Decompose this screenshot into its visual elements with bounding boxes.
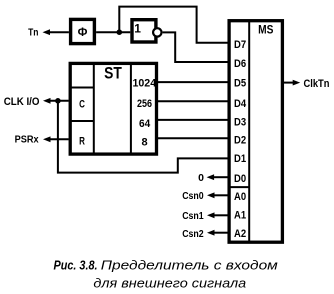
svg-text:ST: ST (104, 64, 122, 82)
wire ST 8 to MS D2 (158, 137, 228, 139)
wire ST 1024 to MS D5 (158, 81, 228, 83)
multiplexer MS box (229, 21, 282, 243)
svg-text:D6: D6 (234, 58, 246, 70)
svg-text:ClkTn: ClkTn (304, 78, 330, 90)
wire Tn to block F (49, 31, 69, 33)
svg-text:D3: D3 (234, 116, 246, 128)
svg-text:Рис. 3.8.: Рис. 3.8. (54, 257, 98, 272)
svg-text:64: 64 (139, 118, 151, 130)
svg-text:1: 1 (134, 21, 141, 35)
wire junction A to MS D7 (119, 7, 228, 43)
svg-text:8: 8 (142, 137, 148, 149)
arrow to 0 (207, 174, 215, 180)
svg-text:для внешнего сигнала: для внешнего сигнала (93, 276, 246, 291)
svg-text:256: 256 (137, 98, 152, 110)
svg-text:A1: A1 (234, 210, 246, 222)
svg-text:PSRx: PSRx (15, 134, 39, 146)
svg-text:C: C (79, 99, 85, 111)
wire F output to gate 1 (96, 31, 130, 33)
wire 0 to MS D0 (213, 176, 228, 178)
wire CLK I/O to ST pin C (50, 100, 69, 102)
svg-text:Ф: Ф (78, 27, 88, 39)
wire inverter output to MS D6 (163, 32, 228, 62)
arrow to ClkTn (293, 80, 301, 86)
MS separator D0/A0 (229, 186, 249, 188)
ST cell line between C and R (70, 120, 94, 122)
svg-text:MS: MS (258, 23, 273, 37)
svg-text:Csn0: Csn0 (182, 191, 204, 202)
arrow to Csn0 (207, 192, 215, 198)
wire ST 256 to MS D4 (158, 100, 228, 102)
counter ST box (70, 63, 156, 154)
arrow to CLK I/O (43, 98, 51, 104)
wire MS output ClkTn (284, 82, 294, 84)
svg-text:Предделитель с входом: Предделитель с входом (101, 257, 278, 272)
svg-text:A2: A2 (234, 228, 246, 240)
ST inner divider right (130, 63, 132, 154)
svg-text:Csn1: Csn1 (182, 211, 204, 222)
svg-text:D7: D7 (234, 39, 246, 51)
gate U1 inverter box (132, 20, 156, 42)
wire junction B to MS D1 (58, 101, 228, 173)
ST cell line above C (70, 87, 94, 89)
svg-text:A0: A0 (234, 191, 246, 203)
svg-text:D2: D2 (234, 134, 246, 146)
svg-text:D1: D1 (234, 153, 246, 165)
inverter bubble (153, 28, 161, 36)
wire Csn0 to MS A0 (213, 194, 228, 196)
arrow to Tn (43, 29, 51, 35)
svg-text:0: 0 (198, 172, 204, 184)
svg-text:Csn2: Csn2 (182, 229, 204, 240)
svg-text:CLK I/O: CLK I/O (4, 96, 40, 108)
svg-text:R: R (79, 135, 85, 147)
arrow to Csn2 (207, 230, 215, 236)
junction dot B (55, 98, 61, 104)
svg-text:D4: D4 (234, 98, 247, 110)
wire PSRx to ST pin R (50, 138, 69, 140)
wire Csn2 to MS A2 (213, 232, 228, 234)
arrow to PSRx (43, 136, 51, 142)
svg-text:D0: D0 (234, 173, 246, 185)
ST inner divider left (93, 63, 95, 154)
MS inner divider (248, 21, 250, 243)
svg-text:1024: 1024 (132, 78, 157, 90)
svg-text:Tn: Tn (28, 27, 38, 39)
wire ST 64 to MS D3 (158, 119, 228, 121)
svg-text:D5: D5 (234, 78, 246, 90)
block F (pulse shaper) (71, 19, 95, 43)
wire Csn1 to MS A1 (213, 214, 228, 216)
arrow to Csn1 (207, 212, 215, 218)
junction dot A (117, 29, 123, 35)
